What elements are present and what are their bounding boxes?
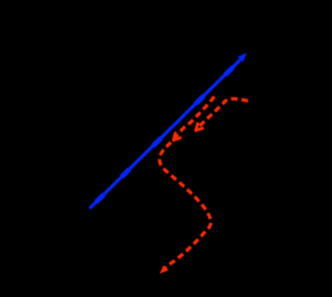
- blue arrowhead: [237, 53, 247, 63]
- blue straight trajectory line: [90, 58, 243, 209]
- red dashed main S trajectory: [160, 97, 215, 268]
- blue line thick nub 4: [225, 67, 233, 75]
- blue line thick nub 2: [153, 138, 161, 146]
- open V arrowhead mid S trajectory: [174, 133, 181, 140]
- open V arrowhead on upper branch: [196, 124, 203, 131]
- blue line thick nub 1: [96, 194, 104, 202]
- red dashed upper branch (hump + diagonal): [198, 99, 248, 128]
- blue line thick nub 5: [122, 169, 130, 177]
- blue line thick nub 3: [196, 96, 204, 104]
- filled arrowhead at end of S trajectory: [160, 265, 169, 274]
